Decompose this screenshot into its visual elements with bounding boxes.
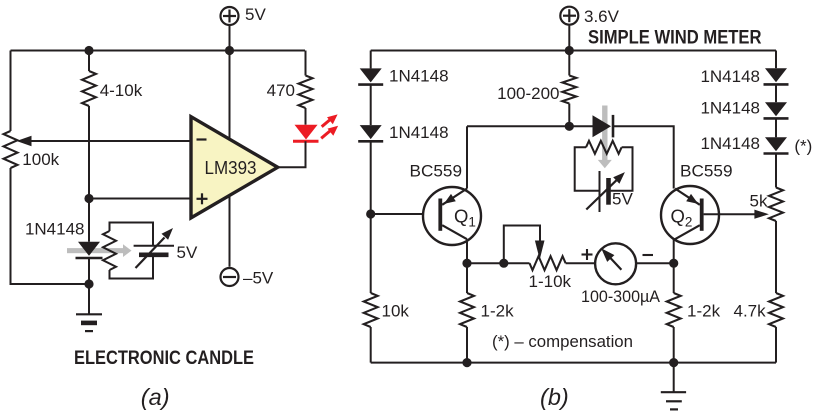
variable capacitor 5V in model box (b) bbox=[586, 171, 625, 212]
wire: D8 to 5k bbox=[775, 154, 777, 188]
wire: D1 cathode to ground node bbox=[88, 259, 90, 284]
label (*) marker bbox=[794, 136, 812, 155]
light arrow (gray) onto D1 bbox=[67, 244, 132, 257]
wire: ground stem (a) bbox=[88, 284, 90, 314]
wire: comparator V- supply lead bbox=[229, 51, 231, 267]
transistor Q1 BC559 bbox=[423, 187, 481, 245]
svg-text:1-10k: 1-10k bbox=[529, 272, 572, 291]
wire: Q2 collector down bbox=[673, 239, 675, 263]
wire: 470 to LED bbox=[305, 108, 307, 125]
svg-text:4-10k: 4-10k bbox=[100, 81, 143, 100]
label BC559 (Q2) bbox=[680, 162, 733, 181]
wire: meter to Q2 collector node bbox=[636, 262, 674, 264]
label 4-10k bbox=[100, 81, 143, 100]
svg-text:10k: 10k bbox=[382, 302, 410, 321]
resistor 1-2k (left) bbox=[460, 263, 474, 362]
svg-text:5k: 5k bbox=[750, 192, 768, 211]
label 1N4148 (a) bbox=[25, 220, 85, 239]
svg-text:(a): (a) bbox=[141, 384, 170, 410]
wire: pot to meter bbox=[566, 262, 596, 264]
meter M1 100-300uA bbox=[595, 243, 636, 284]
label 100-300uA bbox=[581, 287, 661, 306]
svg-text:1-2k: 1-2k bbox=[481, 302, 515, 321]
wire: D6-D7 bbox=[775, 84, 777, 102]
node: pot bypass junction bbox=[499, 259, 508, 268]
label 10k bbox=[382, 302, 410, 321]
wire: 4-10k top lead bbox=[88, 51, 90, 72]
label 4.7k bbox=[734, 302, 767, 321]
node: Q2 collector junction bbox=[669, 259, 678, 268]
svg-text:1-2k: 1-2k bbox=[687, 302, 721, 321]
svg-text:3.6V: 3.6V bbox=[584, 7, 620, 26]
resistor 4-10k bbox=[82, 71, 96, 106]
svg-text:BC559: BC559 bbox=[680, 162, 733, 181]
label 3.6V bbox=[584, 7, 620, 26]
svg-text:100-300µA: 100-300µA bbox=[581, 287, 661, 306]
wire: Q1 emitter up bbox=[466, 126, 468, 188]
svg-text:1N4148: 1N4148 bbox=[389, 123, 449, 142]
diode D3 1N4148 bbox=[358, 68, 383, 84]
label 5V (positive supply) bbox=[245, 5, 266, 24]
label (*) - compensation note bbox=[492, 332, 633, 351]
box: lamp thermal model (a) bbox=[110, 223, 154, 279]
svg-text:LM393: LM393 bbox=[205, 157, 257, 178]
label 470 bbox=[267, 81, 295, 100]
wire: 5k to 4.7k bbox=[775, 221, 777, 293]
wire: node row left bbox=[467, 125, 593, 127]
resistor 470 bbox=[299, 76, 313, 109]
title ELECTRONIC CANDLE bbox=[74, 347, 254, 369]
svg-text:1N4148: 1N4148 bbox=[700, 67, 760, 86]
svg-text:470: 470 bbox=[267, 81, 295, 100]
power +3.6V supply symbol bbox=[560, 7, 578, 51]
power +5V supply symbol bbox=[221, 7, 239, 51]
label 1-2k (left) bbox=[481, 302, 515, 321]
label BC559 (Q1) bbox=[410, 162, 463, 181]
label - (meter) bbox=[643, 254, 654, 256]
op-amp U1 LM393 bbox=[191, 117, 278, 218]
wire: (b) left rail to 10k bbox=[370, 214, 372, 293]
diode D6 1N4148 bbox=[764, 68, 789, 84]
svg-text:SIMPLE WIND METER: SIMPLE WIND METER bbox=[588, 27, 762, 49]
wiper arrow of 100k pot bbox=[17, 136, 192, 147]
svg-text:(*) – compensation: (*) – compensation bbox=[492, 332, 633, 351]
wire: top rail corner to 470 bbox=[305, 51, 307, 76]
label 5V (model box b) bbox=[612, 190, 633, 209]
svg-text:(b): (b) bbox=[540, 384, 569, 410]
svg-text:5V: 5V bbox=[612, 190, 633, 209]
wire: 4-10k bottom lead down to diode bbox=[88, 106, 90, 242]
resistor in model box (b) bbox=[586, 141, 622, 154]
svg-text:ELECTRONIC CANDLE: ELECTRONIC CANDLE bbox=[74, 347, 254, 369]
wire: (b) bottom rail bbox=[371, 362, 776, 364]
label Q1 bbox=[454, 206, 476, 230]
label 1N4148 (D8) bbox=[700, 134, 760, 153]
potentiometer 1-10k bbox=[530, 256, 566, 270]
label -5V bbox=[243, 269, 274, 288]
ground (b) bbox=[661, 392, 686, 409]
title SIMPLE WIND METER bbox=[588, 27, 762, 49]
svg-text:BC559: BC559 bbox=[410, 162, 463, 181]
node: junction top rail / comparator supply bbox=[225, 46, 234, 55]
wire: 4.7k to bottom rail bbox=[775, 327, 777, 363]
wire: base lead Q1 bbox=[371, 213, 439, 215]
wire: D7-D8 bbox=[775, 118, 777, 137]
node: (a) bottom junction bbox=[84, 279, 93, 288]
wire: (b) right rail to D6 bbox=[775, 51, 777, 69]
label 1N4148 (D6) bbox=[700, 67, 760, 86]
wire: (a) left rail upper segment bbox=[10, 51, 12, 132]
node: junction top rail / 4-10k bbox=[84, 46, 93, 55]
svg-text:5V: 5V bbox=[177, 243, 198, 262]
svg-text:1N4148: 1N4148 bbox=[700, 99, 760, 118]
svg-text:100k: 100k bbox=[22, 150, 59, 169]
resistor (filament) in model box (a) bbox=[103, 231, 116, 270]
svg-text:1N4148: 1N4148 bbox=[700, 134, 760, 153]
wire: D4 to Q1 base node bbox=[370, 141, 372, 214]
label LM393 bbox=[205, 157, 257, 178]
potentiometer 5k bbox=[769, 188, 783, 222]
label 1-2k (right) bbox=[687, 302, 721, 321]
LED D2 (red) bbox=[293, 125, 319, 142]
wire: to + input of U1 bbox=[89, 198, 191, 200]
diode D5 (heater) bbox=[593, 115, 614, 137]
wire: 10k to bottom rail bbox=[370, 327, 372, 363]
node: Q1 collector junction bbox=[462, 259, 471, 268]
wire: LED cathode to U1 output bbox=[278, 141, 306, 167]
svg-text:1N4148: 1N4148 bbox=[389, 67, 449, 86]
svg-text:5V: 5V bbox=[245, 5, 266, 24]
label 100-200 bbox=[497, 84, 559, 103]
wire: (b) top rail bbox=[371, 50, 776, 52]
label 1-10k bbox=[529, 272, 572, 291]
label 100k bbox=[22, 150, 59, 169]
wire: Q2 base to 5k wiper bbox=[704, 210, 769, 219]
label 1N4148 (D3) bbox=[389, 67, 449, 86]
wiper loop of 1-10k bbox=[504, 226, 545, 264]
svg-text:4.7k: 4.7k bbox=[734, 302, 767, 321]
node: non-inverting input junction bbox=[84, 194, 93, 203]
wire: ground stem (b) bbox=[673, 363, 675, 393]
heat arrow (gray) down bbox=[598, 106, 612, 169]
label 1N4148 (D7) bbox=[700, 99, 760, 118]
variable capacitor 5V in model box (a) bbox=[134, 228, 174, 268]
node: bottom rail / ground bbox=[669, 358, 678, 367]
node: heater node bbox=[565, 122, 574, 131]
wire: (a) +5V top rail bbox=[11, 50, 306, 52]
transistor Q2 BC559 bbox=[661, 186, 719, 244]
resistor 100-200 bbox=[562, 76, 576, 104]
wire: (a) left rail lower segment + bottom wire bbox=[11, 168, 90, 284]
ground (a) bbox=[76, 314, 102, 331]
label 1N4148 (D4) bbox=[389, 123, 449, 142]
potentiometer R 100k bbox=[4, 131, 18, 168]
wire: Q1 collector down bbox=[466, 239, 468, 263]
wire: D3 to D4 bbox=[370, 85, 372, 126]
photodiode D1 1N4148 bbox=[76, 242, 103, 258]
resistor 4.7k bbox=[769, 293, 783, 327]
node: bottom rail / 1-2k left bbox=[462, 358, 471, 367]
diode D4 1N4148 bbox=[358, 125, 383, 141]
LED emission arrows (red) bbox=[321, 114, 338, 138]
power -5V supply symbol bbox=[221, 268, 239, 286]
resistor 1-2k (right) bbox=[667, 263, 681, 362]
wire: D5 to Q2 emitter bbox=[613, 126, 674, 188]
svg-text:1N4148: 1N4148 bbox=[25, 220, 85, 239]
wire: 3.6V to 100-200 bbox=[568, 51, 570, 76]
label Q2 bbox=[671, 206, 693, 230]
diode D7 1N4148 bbox=[764, 102, 789, 118]
box: heated-diode thermal model (b) bbox=[575, 147, 633, 190]
node: Q1 base junction bbox=[366, 209, 375, 218]
node: junction rail/3.6V bbox=[565, 46, 574, 55]
diode D8 1N4148 (compensation) bbox=[764, 137, 789, 153]
svg-text:(*): (*) bbox=[794, 136, 812, 155]
label (b) bbox=[540, 384, 569, 410]
wire: Q1 collector row to pot bbox=[467, 262, 530, 264]
label 5V (model box a) bbox=[177, 243, 198, 262]
wire: (b) left rail to D3 bbox=[370, 51, 372, 69]
label 5k bbox=[750, 192, 768, 211]
resistor 10k bbox=[364, 293, 378, 327]
label (a) bbox=[141, 384, 170, 410]
svg-text:–5V: –5V bbox=[243, 269, 274, 288]
label + (meter) bbox=[582, 249, 593, 260]
wire: 100-200 to node row bbox=[568, 104, 570, 127]
svg-text:100-200: 100-200 bbox=[497, 84, 559, 103]
